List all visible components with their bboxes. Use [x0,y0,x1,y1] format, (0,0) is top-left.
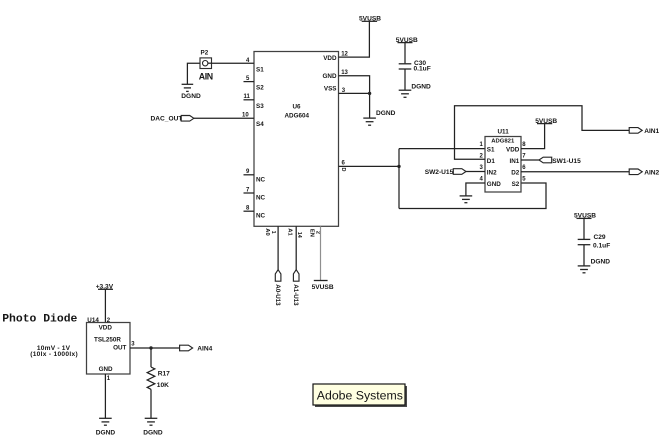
svg-text:R17: R17 [158,371,170,378]
svg-text:A0-U13: A0-U13 [274,284,281,306]
svg-text:DGND: DGND [411,84,431,91]
svg-text:C29: C29 [594,234,606,241]
port AIN2 [629,169,659,176]
U6 pin 11 S3 [244,94,265,110]
wire C29 to ground [583,245,585,266]
svg-text:0.1uF: 0.1uF [414,66,431,73]
port SW2-U15 [425,169,466,177]
svg-text:2: 2 [314,231,320,234]
svg-text:AIN2: AIN2 [644,169,659,176]
U14 pin 2 VDD [99,318,113,332]
ground DGND at P2 [181,84,201,100]
wire U11 GND to ground [466,183,485,196]
IC U14 TSL250R body [87,317,131,374]
wire U6 pin 3 [339,92,370,94]
svg-text:0.1uF: 0.1uF [593,242,610,249]
wire U11 D2 to AIN2 [521,171,629,173]
svg-text:A1-U13: A1-U13 [292,284,299,306]
IC U6 ADG604 body [254,52,339,227]
U11 pin 5 S2 [512,177,527,188]
svg-text:EN: EN [309,229,315,237]
svg-text:DGND: DGND [143,430,163,437]
U11 pin 7 IN1 [509,154,526,165]
svg-text:10K: 10K [157,382,169,389]
power 5VUSB (below EN, bar up) [312,281,334,291]
U6 pin 8 NC [244,206,266,220]
svg-text:AIN4: AIN4 [197,345,212,352]
port A0-U13 [274,270,281,306]
svg-text:5VUSB: 5VUSB [535,118,557,125]
power +3.3V [96,284,114,291]
svg-text:U6: U6 [293,104,302,111]
svg-text:(10lx - 1000lx): (10lx - 1000lx) [30,351,78,358]
svg-text:A0: A0 [264,228,270,235]
capacitor C29 0.1uF [578,234,611,249]
power 5VUSB (above C30) [396,37,418,44]
svg-text:11: 11 [244,94,251,100]
ground at U11 GND [460,196,473,203]
U6 pin 9 NC [244,169,266,183]
wire U14 GND down [104,374,106,418]
junction OUT node [149,346,152,349]
port AIN1 [629,128,659,135]
svg-text:1: 1 [270,231,276,234]
U6 pin 13 GND [323,70,349,80]
wire SW2 to U11 IN2 [466,171,485,173]
U11 pin 6 D2 [511,165,526,176]
U6 pin 14 A1 (bottom) [286,228,302,238]
svg-text:S4: S4 [256,121,264,128]
svg-text:VDD: VDD [506,147,520,154]
U6 pin 6 D [340,161,346,172]
svg-text:VSS: VSS [324,86,337,93]
svg-text:P2: P2 [201,50,209,57]
svg-text:DGND: DGND [591,258,611,265]
wire U11 IN1 to SW1 [521,159,539,161]
svg-text:NC: NC [256,213,266,220]
ground DGND below U6 [363,110,395,125]
svg-text:GND: GND [99,366,113,373]
junction mux output node [397,165,400,168]
svg-text:DGND: DGND [96,430,116,437]
U14 pin 1 GND [99,366,113,382]
ground DGND below U14 [96,418,116,436]
svg-text:IN2: IN2 [487,170,497,177]
ground DGND below C30 [399,84,431,98]
svg-text:ADG604: ADG604 [285,113,310,120]
svg-text:5VUSB: 5VUSB [359,16,381,23]
power 5VUSB (above U6) [359,16,381,23]
wire U6 pin 12 to 5VUSB [339,21,370,57]
U11 pin 1 S1 [480,142,495,153]
svg-text:S1: S1 [487,147,495,154]
svg-text:Photo Diode: Photo Diode [2,314,77,326]
svg-text:VDD: VDD [99,325,113,332]
svg-text:D2: D2 [511,170,520,177]
wire node vertical [398,149,400,209]
svg-text:S2: S2 [256,85,264,92]
wire U11 D1 to AIN1 [455,106,630,160]
wire +3.3V to U14 VDD [104,289,106,322]
svg-text:S1: S1 [256,67,264,74]
U6 pin 12 VDD [323,51,348,62]
wire 5VUSB to C30 [404,43,406,64]
U11 pin 3 IN2 [480,165,498,176]
wire U6 pin 6 to node [339,165,400,167]
wire node to U11 S2 (bottom loop) [399,183,546,209]
power 5VUSB (above C29) [574,213,596,220]
svg-text:U11: U11 [498,128,510,135]
U6 pin 1 A0 (bottom) [264,228,276,235]
U6 pin 10 S4 [242,112,264,128]
svg-text:GND: GND [323,73,337,80]
port SW1-U15 [539,157,581,165]
svg-text:OUT: OUT [113,344,126,351]
svg-text:D: D [340,168,346,172]
svg-text:S3: S3 [256,103,264,110]
wire 5VUSB to C29 [583,218,585,239]
svg-text:5VUSB: 5VUSB [312,284,334,291]
svg-text:DAC_OUT: DAC_OUT [151,116,183,123]
U11 pin 8 VDD [506,142,526,153]
IC U11 ADG821 body [485,128,521,192]
U11 pin 4 GND [480,177,502,188]
svg-text:DGND: DGND [376,110,396,117]
wire resistor to ground [150,389,152,418]
U11 pin 2 D1 [480,154,496,165]
wire U11 VDD to 5VUSB [521,124,545,149]
svg-text:VDD: VDD [323,55,337,62]
wire P2 to ground [187,63,200,84]
wire U14 OUT to AIN4 [130,347,180,349]
svg-text:NC: NC [256,176,266,183]
svg-text:U14: U14 [87,317,99,324]
U6 pin 5 S2 [244,76,265,92]
svg-text:Adobe Systems: Adobe Systems [317,388,403,402]
wire C30 to ground [404,69,406,90]
U6 pin 4 S1 [246,58,264,74]
svg-text:AIN: AIN [199,71,213,81]
junction VSS node [368,92,371,95]
svg-text:SW2-U15: SW2-U15 [425,169,454,176]
power 5VUSB (above U11) [535,118,557,125]
svg-text:A1: A1 [286,228,292,236]
svg-text:10: 10 [242,112,249,118]
wire node to resistor [150,348,152,367]
svg-text:NC: NC [256,195,266,202]
wire U6 pin 13 down [339,76,370,118]
svg-text:AIN1: AIN1 [644,128,659,135]
svg-text:DGND: DGND [181,93,201,100]
resistor R17 10K [147,367,170,389]
svg-text:D1: D1 [487,158,496,165]
svg-text:ADG821: ADG821 [491,138,515,144]
U6 pin 2 EN (bottom) [309,229,321,237]
connector P2 [200,50,212,69]
tooltip Adobe Systems [313,384,407,407]
wire U6 A0 down [277,226,279,269]
wire U6 A1 down [295,226,297,269]
U6 pin 7 NC [244,187,266,201]
wire P2 to U6 pin 4 [212,62,255,64]
wire DAC_OUT to U6 pin 10 [194,117,254,119]
ground DGND below R17 [143,418,163,436]
U6 pin 3 VSS [324,86,346,94]
svg-text:IN1: IN1 [509,158,519,165]
svg-text:TSL250R: TSL250R [94,336,121,343]
ground DGND below C29 [578,258,611,272]
svg-text:GND: GND [487,181,501,188]
wire node to U11 S1 [399,148,485,150]
port AIN4 [180,345,213,352]
svg-text:+3.3V: +3.3V [96,284,114,291]
U14 pin 3 OUT [113,341,135,351]
svg-text:SW1-U15: SW1-U15 [552,158,581,165]
svg-text:5VUSB: 5VUSB [396,37,418,44]
wire U6 EN down (gray) [320,226,322,280]
svg-text:5VUSB: 5VUSB [574,213,596,220]
svg-text:S2: S2 [512,181,520,188]
capacitor C30 0.1uF [399,60,431,73]
port DAC_OUT [151,116,194,123]
port A1-U13 [292,270,299,306]
